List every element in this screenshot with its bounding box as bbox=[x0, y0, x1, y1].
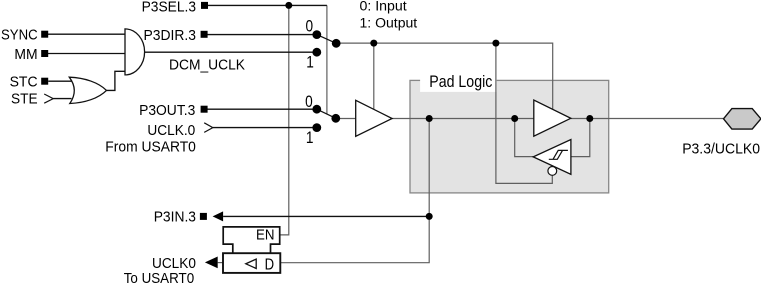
svg-text:Pad Logic: Pad Logic bbox=[429, 73, 492, 91]
svg-text:P3SEL.3: P3SEL.3 bbox=[142, 0, 196, 15]
svg-text:DCM_UCLK: DCM_UCLK bbox=[169, 56, 245, 73]
svg-text:STE: STE bbox=[11, 90, 38, 107]
svg-text:P3.3/UCLK0: P3.3/UCLK0 bbox=[682, 141, 760, 158]
svg-text:From USART0: From USART0 bbox=[105, 139, 196, 156]
svg-text:P3DIR.3: P3DIR.3 bbox=[144, 27, 197, 44]
svg-text:0: Input: 0: Input bbox=[360, 0, 407, 14]
svg-text:0: 0 bbox=[306, 17, 314, 36]
svg-text:1: 1 bbox=[306, 128, 314, 147]
svg-text:0: 0 bbox=[305, 92, 313, 111]
svg-text:P3IN.3: P3IN.3 bbox=[154, 209, 196, 226]
svg-text:D: D bbox=[265, 256, 275, 273]
svg-text:MM: MM bbox=[14, 46, 37, 63]
svg-text:P3OUT.3: P3OUT.3 bbox=[139, 102, 195, 119]
svg-text:1: 1 bbox=[306, 53, 314, 72]
svg-text:SYNC: SYNC bbox=[1, 26, 38, 43]
svg-text:To USART0: To USART0 bbox=[124, 270, 195, 284]
svg-text:EN: EN bbox=[256, 227, 275, 243]
svg-text:UCLK.0: UCLK.0 bbox=[147, 122, 195, 139]
svg-text:1: Output: 1: Output bbox=[360, 15, 418, 30]
svg-text:STC: STC bbox=[10, 74, 38, 91]
